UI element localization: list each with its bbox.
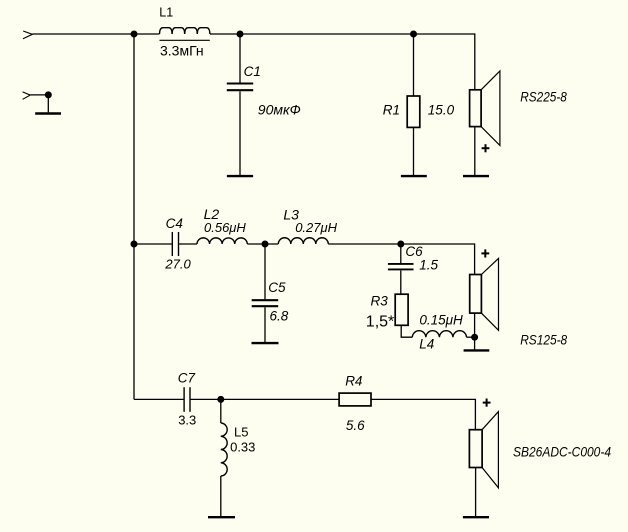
svg-text:0.33: 0.33 xyxy=(230,439,255,454)
wire L4 to speaker2 bottom node xyxy=(467,336,475,338)
svg-text:0.56μH: 0.56μH xyxy=(204,220,246,235)
wire C1 node to R1 node xyxy=(240,33,414,35)
inductor L3 xyxy=(278,238,328,244)
svg-text:RS125-8: RS125-8 xyxy=(520,331,567,347)
inductor L5 xyxy=(220,399,222,423)
svg-text:6.8: 6.8 xyxy=(270,309,289,324)
resistor R1 xyxy=(413,34,415,96)
wire bottom rail left xyxy=(134,398,184,400)
wire L5 node to R4 xyxy=(221,398,339,400)
ground C1 xyxy=(227,175,253,177)
node L5-top xyxy=(217,396,224,403)
ground SP3 xyxy=(463,516,489,518)
wire R3 to L4 xyxy=(401,325,412,337)
svg-text:0.15μH: 0.15μH xyxy=(419,313,463,328)
svg-text:1,5*: 1,5* xyxy=(366,313,394,330)
inductor L2 xyxy=(197,238,247,244)
speaker SP2 (RS125-8) xyxy=(481,258,498,330)
ground C5 xyxy=(252,342,279,344)
wire R1 node to speaker1 xyxy=(414,34,475,90)
input terminal IN2 xyxy=(23,92,31,99)
capacitor C1 xyxy=(239,34,241,83)
node C6-top xyxy=(397,241,404,248)
ground L5 xyxy=(208,516,235,518)
ground SP1 xyxy=(463,175,489,177)
plus SP2 xyxy=(481,249,489,257)
input terminal IN1 xyxy=(23,31,32,39)
svg-text:R3: R3 xyxy=(371,294,389,309)
svg-text:15.0: 15.0 xyxy=(428,103,455,118)
speaker SP1 (RS225-8) xyxy=(481,71,500,145)
ground R1 xyxy=(401,175,427,177)
svg-text:R1: R1 xyxy=(383,103,400,118)
svg-text:C4: C4 xyxy=(166,216,183,231)
resistor R3 xyxy=(395,294,408,325)
ground SP2 xyxy=(464,349,490,351)
svg-text:3.3: 3.3 xyxy=(178,413,196,428)
node C1-top xyxy=(237,31,244,38)
plus SP3 xyxy=(483,399,491,407)
capacitor C5 xyxy=(264,244,266,299)
inductor L4 xyxy=(412,331,466,338)
wire L1 to C1 node xyxy=(210,33,240,35)
speaker SP3 (SB26ADC-C000-4) xyxy=(482,412,498,488)
node C5-top xyxy=(262,241,269,248)
wire R4 to speaker3 xyxy=(371,399,475,429)
capacitor C6 xyxy=(400,244,402,263)
svg-text:C7: C7 xyxy=(178,371,196,386)
capacitor C4 xyxy=(171,232,173,256)
svg-text:RS225-8: RS225-8 xyxy=(520,89,567,105)
node R1-top xyxy=(410,31,417,38)
svg-text:SB26ADC-C000-4: SB26ADC-C000-4 xyxy=(513,444,611,460)
svg-text:C1: C1 xyxy=(244,64,261,79)
node A (trunk top junction) xyxy=(131,31,138,38)
wire C6 node to speaker2 xyxy=(401,244,475,275)
svg-text:1.5: 1.5 xyxy=(419,258,438,273)
capacitor C7 xyxy=(183,387,185,412)
inductor L1 xyxy=(160,28,210,34)
ground input2 xyxy=(47,95,49,113)
wire mid rail left xyxy=(134,243,172,245)
resistor R4 xyxy=(339,393,371,406)
wire top rail left xyxy=(32,33,159,35)
svg-text:5.6: 5.6 xyxy=(346,418,365,433)
wire input2 xyxy=(30,94,48,96)
svg-text:90мкФ: 90мкФ xyxy=(258,102,301,118)
node B (input2 junction) xyxy=(45,91,52,98)
node mid-trunk xyxy=(131,241,138,248)
wire L2 to C5 node xyxy=(247,243,278,245)
svg-text:0.27μH: 0.27μH xyxy=(295,220,337,235)
wire C7 to L5 node xyxy=(191,398,221,400)
svg-text:L5: L5 xyxy=(234,424,248,439)
wire vertical trunk xyxy=(133,34,135,399)
svg-text:3.3мГн: 3.3мГн xyxy=(160,42,204,58)
wire C4 to L2 xyxy=(179,243,197,245)
svg-text:L1: L1 xyxy=(159,6,173,20)
svg-text:R4: R4 xyxy=(345,373,362,388)
svg-text:27.0: 27.0 xyxy=(164,256,191,271)
svg-text:C5: C5 xyxy=(268,280,286,295)
svg-text:L4: L4 xyxy=(419,337,434,352)
wire L3 to C6 node xyxy=(328,243,401,245)
plus SP1 xyxy=(482,144,490,152)
node SP2-bottom xyxy=(471,334,478,341)
